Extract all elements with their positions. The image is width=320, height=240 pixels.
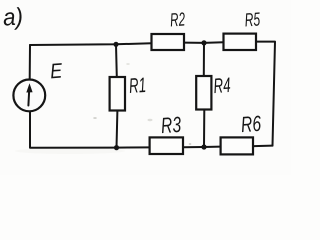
wire: R3 to source bottom (30, 112, 150, 148)
resistor R4 (196, 76, 211, 110)
label R5 (244, 9, 261, 31)
label E (49, 59, 63, 83)
label R3 (160, 112, 182, 138)
wire: R4 top lead (203, 43, 205, 76)
resistor R3 (150, 137, 183, 154)
node: junction R4 bottom (201, 144, 206, 149)
node: junction R4 top (201, 40, 206, 45)
svg-text:a): a) (2, 3, 24, 31)
svg-text:R5: R5 (244, 9, 261, 31)
wire: R6 to R4 bottom junction (204, 146, 221, 148)
label R4 (213, 74, 232, 98)
voltage source E (13, 80, 45, 112)
svg-text:R4: R4 (213, 74, 232, 98)
wire: bottom-right corner to R6 (253, 145, 273, 148)
label R6 (240, 111, 262, 137)
svg-text:R2: R2 (169, 9, 186, 31)
wire: R5 to top-right corner and down right side (256, 42, 275, 146)
wire: top from source to R2 (30, 43, 152, 45)
node: junction R1 top (113, 42, 118, 47)
wire: R1 bottom lead (116, 111, 119, 148)
label R1 (128, 74, 147, 98)
node: junction R1 bottom (114, 145, 119, 150)
resistor R5 (224, 34, 257, 50)
wire: R4 bottom junction to R3 (183, 146, 204, 148)
label R2 (169, 9, 186, 31)
svg-text:R1: R1 (128, 74, 147, 98)
svg-text:R3: R3 (160, 112, 182, 138)
wire: R4 bottom lead (203, 110, 205, 148)
resistor R6 (221, 137, 253, 154)
resistor R1 (110, 77, 125, 111)
wire: source top lead (29, 45, 31, 80)
paper background (0, 0, 291, 175)
resistor R2 (152, 34, 185, 50)
wire: R1 top lead (115, 44, 118, 77)
label a) (2, 3, 24, 31)
wire: R2 to R4 top (184, 42, 204, 44)
wire: R4 top junction to R5 (204, 41, 224, 44)
svg-text:R6: R6 (240, 111, 262, 137)
